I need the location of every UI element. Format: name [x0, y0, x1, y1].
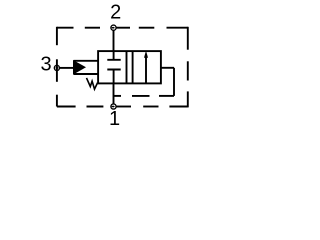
spring	[87, 78, 98, 89]
svg-text:3: 3	[40, 54, 51, 76]
dashed enclosure bottom border	[57, 106, 188, 108]
wire port 3	[60, 67, 74, 69]
feedback wire vertical	[173, 68, 175, 96]
port node 1	[111, 104, 116, 109]
position divider left	[126, 51, 128, 83]
port label 3	[40, 54, 51, 76]
dashed enclosure top border	[57, 27, 188, 29]
port node 2	[111, 25, 116, 30]
port label 1	[109, 108, 120, 130]
flow arrow	[144, 51, 148, 84]
feedback wire horizontal	[161, 67, 174, 69]
wire port 2	[113, 30, 115, 51]
pilot box top rail	[74, 60, 99, 62]
wire port 1	[113, 83, 115, 104]
dashed enclosure left border	[56, 27, 58, 107]
pilot triangle	[73, 60, 86, 75]
svg-text:2: 2	[110, 1, 121, 23]
pilot box bottom rail	[74, 73, 99, 75]
port node 3	[54, 65, 59, 70]
seat symbol lower T	[107, 70, 120, 84]
drain dashed wire	[114, 95, 174, 97]
seat symbol upper T	[107, 51, 120, 60]
valve body	[98, 51, 161, 83]
svg-text:1: 1	[109, 108, 120, 130]
position divider right	[132, 51, 134, 83]
port label 2	[110, 1, 121, 23]
dashed enclosure right border	[187, 27, 189, 108]
